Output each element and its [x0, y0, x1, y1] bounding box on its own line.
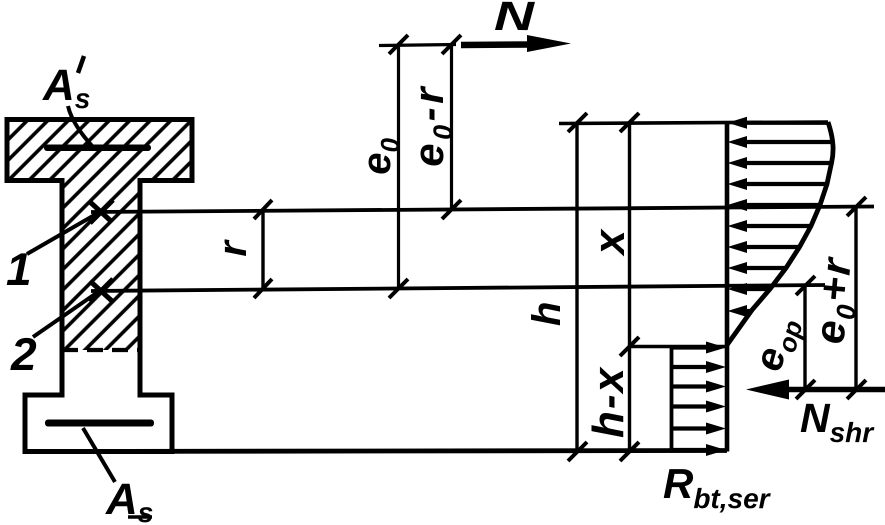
e_op dimension line [803, 286, 806, 390]
svg-text:h-x: h-x [584, 366, 633, 438]
leader from As to bottom bar [83, 428, 115, 482]
centroid line (through point 2) [91, 285, 825, 291]
leader from A's to top bar [68, 106, 93, 147]
svg-text:1: 1 [6, 243, 32, 295]
leader from 1 to core point [27, 213, 98, 254]
tick h top [568, 113, 587, 132]
tick e0+r bottom [847, 380, 866, 399]
curved stress envelope [727, 122, 833, 345]
x dimension line [628, 123, 631, 453]
bottom fibre line [25, 451, 727, 452]
top reinforcement bar A's [44, 145, 151, 152]
svg-text:h: h [525, 302, 569, 326]
compression stress arrows (pointing left) [728, 117, 832, 317]
underline of As subscript [128, 515, 152, 519]
tick e_op bottom [796, 380, 815, 399]
h dimension line [575, 123, 578, 453]
e0 dimension line [397, 45, 400, 289]
tick e0 top [389, 35, 408, 54]
tick r top [254, 200, 272, 219]
leader from 2 to core point [33, 292, 98, 337]
svg-text:N: N [494, 0, 536, 39]
e0+r dimension line [854, 207, 857, 390]
e0-r dimension line [450, 45, 453, 210]
r dimension line [261, 210, 264, 290]
tick x middle [620, 337, 639, 356]
concrete section outline (T top flange + web + bottom flange) [7, 120, 192, 452]
compressed face line (right edge of section elevation) [725, 122, 730, 452]
label A's [42, 56, 90, 114]
core point cross 1 [90, 200, 113, 223]
hatched upper web region [62, 181, 140, 351]
top fibre line of stress zone [559, 122, 828, 124]
tick r bottom [254, 279, 272, 298]
tick e_op top [796, 276, 815, 295]
hatched top flange of cross-section [7, 120, 192, 181]
tension block top edge [630, 345, 728, 349]
force N_shr arrow [746, 380, 885, 400]
svg-text:x: x [585, 228, 634, 256]
core point cross 2 [90, 279, 113, 302]
upper core line (through point 1) [91, 207, 874, 213]
tick e0-r bottom [442, 200, 461, 219]
tick h bottom [568, 442, 587, 461]
tick x top [620, 113, 639, 132]
dashed line across web [62, 348, 140, 352]
tick e0+r top [847, 197, 866, 216]
tick x bottom [620, 442, 639, 461]
N dimension line [379, 45, 456, 46]
bottom reinforcement bar As [45, 420, 154, 427]
svg-text:r: r [211, 239, 255, 257]
tick e0 bottom [389, 279, 408, 298]
tick e0-r top [442, 35, 461, 54]
tension stress arrows (pointing right) [672, 342, 726, 457]
tension block left edge [670, 347, 674, 452]
force N arrow [461, 35, 571, 52]
